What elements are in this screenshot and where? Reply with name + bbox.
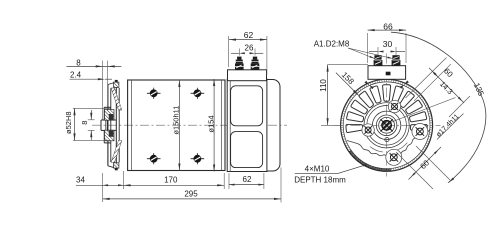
dim 34: [102, 173, 104, 202]
radius arc 135: [391, 32, 486, 183]
boss top: [388, 100, 400, 112]
hub circle 2: [376, 115, 397, 136]
end shield casting contour: [347, 130, 430, 164]
svg-text:ø154: ø154: [206, 115, 215, 132]
end cap seam: [229, 79, 231, 172]
drain hole bottom center: [385, 138, 389, 142]
centerline horizontal right view: [334, 124, 441, 126]
svg-text:62: 62: [244, 30, 254, 40]
dim o154: [213, 79, 215, 172]
boss left: [362, 124, 374, 136]
shaft section hatched: [382, 120, 392, 130]
dim 30: [377, 47, 379, 55]
shield screw left: [365, 127, 371, 133]
svg-text:62: 62: [243, 175, 252, 184]
terminal block front: [368, 66, 406, 80]
terminal block center key: [386, 72, 391, 76]
front stud right: [392, 60, 401, 66]
casting rib arc 2: [395, 143, 407, 151]
bearing hatch upper: [105, 110, 115, 121]
rim dark hatch band lower-left: [349, 150, 391, 171]
dim o52H8: [73, 107, 111, 109]
terminal stud right (side): [251, 63, 260, 69]
body screw 2: [191, 92, 205, 94]
dim 60 lower right: [396, 152, 433, 189]
dim 110: [328, 64, 368, 66]
block corner mark left: [369, 85, 374, 89]
bell housing hatch lower: [111, 141, 121, 163]
svg-text:ø52H8: ø52H8: [64, 111, 73, 134]
shield screw bottom: [390, 154, 397, 161]
slot inner circle: [364, 103, 409, 148]
dim o17.4h11: [389, 98, 456, 124]
svg-text:8: 8: [80, 121, 89, 125]
end cover: [267, 80, 280, 172]
centerline side view axis: [92, 124, 287, 126]
svg-text:295: 295: [184, 189, 198, 198]
front stud left: [374, 60, 383, 66]
svg-text:170: 170: [164, 176, 178, 185]
boss bottom: [386, 149, 402, 165]
flange spigot: [104, 106, 111, 108]
svg-text:A1.D2:M8: A1.D2:M8: [314, 40, 350, 49]
dim 8 top: [67, 65, 122, 67]
bearing hatch lower: [105, 130, 115, 141]
bell housing hatch upper: [111, 88, 121, 110]
svg-text:26: 26: [245, 44, 254, 53]
svg-text:ø150h11: ø150h11: [172, 106, 181, 135]
motor body outline: [128, 80, 225, 171]
shield screw right: [417, 128, 424, 135]
dim 62 top: [228, 44, 230, 67]
flange front face: [107, 85, 109, 166]
dim 158: [336, 73, 359, 96]
dim 295: [280, 168, 282, 203]
svg-text:110: 110: [319, 79, 328, 92]
boss right: [412, 124, 428, 140]
flange bolt bottom: [114, 163, 119, 168]
housing circle: [367, 106, 407, 146]
fan slots ring: [346, 123, 363, 132]
dim 60 upper right: [406, 58, 447, 99]
cap window lower: [231, 132, 263, 168]
rim serration ticks: [341, 79, 433, 171]
svg-text:4×M10: 4×M10: [305, 165, 330, 174]
dim 2.4: [70, 78, 104, 80]
shield screw top: [392, 104, 398, 110]
terminal block side: [228, 70, 267, 81]
cap window upper: [231, 86, 263, 126]
hub circle 3: [379, 117, 395, 133]
svg-text:2.4: 2.4: [70, 70, 82, 79]
shaft: [101, 119, 116, 121]
flange plate: [110, 88, 112, 162]
end cap outline: [227, 79, 267, 172]
dim 66: [367, 33, 369, 63]
svg-text:66: 66: [383, 22, 393, 32]
outer circle: [341, 79, 433, 171]
dim 26: [238, 49, 240, 56]
block corner mark right: [400, 85, 405, 89]
body screw 4: [191, 158, 205, 160]
terminal stud left (side): [235, 63, 244, 69]
hub circle 1: [372, 111, 400, 139]
inner rim circle: [343, 82, 430, 169]
dim 62 bottom: [228, 173, 230, 189]
body screw 1: [147, 92, 161, 94]
body seam lines: [131, 80, 133, 171]
centerline vertical right view: [386, 54, 388, 177]
svg-text:DEPTH 18mm: DEPTH 18mm: [294, 176, 346, 185]
dim 170: [223, 173, 225, 189]
dim o150h11: [178, 80, 180, 171]
dim 8 vertical: [88, 119, 95, 121]
svg-text:30: 30: [383, 39, 393, 49]
svg-text:8: 8: [76, 59, 81, 68]
svg-text:34: 34: [76, 176, 85, 185]
flange bolt top: [114, 82, 119, 87]
body screw 3: [147, 158, 161, 160]
casting rib arc 1: [370, 147, 383, 152]
